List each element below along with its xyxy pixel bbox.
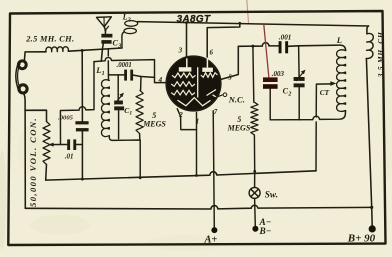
label A+ [204, 235, 218, 246]
wire choke to antenna junction [68, 48, 122, 51]
pin 7 label [214, 108, 218, 116]
label .0005 [58, 115, 74, 122]
wire pot to ground bus [45, 165, 48, 181]
svg-text:MEGS: MEGS [227, 123, 251, 132]
label C3 [113, 39, 122, 50]
terminal B+90 [369, 225, 376, 232]
coil L1 [102, 80, 110, 138]
coil L2 [122, 21, 138, 48]
wire .0005 to ground bus [81, 131, 83, 179]
wire .0001 junction to 5 megs [140, 77, 142, 91]
svg-text:.001: .001 [279, 34, 292, 42]
wire wiper to grid [60, 62, 94, 145]
svg-text:5: 5 [152, 111, 156, 120]
wire .0001 to grid [133, 75, 154, 77]
label N.C. [228, 95, 245, 105]
wire choke junction down to .0005 [81, 51, 83, 122]
svg-text:7: 7 [214, 108, 218, 116]
svg-text:L: L [122, 12, 128, 21]
junction dot pin5 line [251, 45, 254, 48]
terminal A- B- [252, 226, 258, 232]
red crease mark [247, 0, 249, 24]
choke 2.5MH coil [46, 47, 69, 52]
coil L [337, 50, 346, 112]
label .01 [65, 152, 74, 160]
pin 3 label [178, 47, 183, 55]
trimmer capacitor C1 [114, 75, 124, 139]
wire pin 5 to coupling [221, 43, 279, 80]
wire pin 6 plate to top [207, 23, 240, 57]
label C2 [283, 86, 292, 97]
wire phones to choke [24, 52, 46, 61]
svg-text:6: 6 [210, 49, 214, 57]
wire top B+ feed from L2 to RF choke [138, 22, 369, 26]
label CT [320, 88, 330, 97]
choke 3.5MH [366, 26, 373, 226]
label .0001 [117, 62, 132, 69]
svg-text:1: 1 [129, 111, 132, 117]
wire pin 2 [177, 109, 196, 130]
svg-text:2.5 MH. CH.: 2.5 MH. CH. [25, 35, 74, 44]
wire phones to B+ bus [24, 93, 26, 208]
pin 2 label [178, 111, 183, 119]
label Sw. [265, 189, 278, 199]
svg-text:3A8GT: 3A8GT [177, 14, 211, 25]
svg-text:CT: CT [320, 88, 330, 97]
junction dot choke line [81, 49, 84, 52]
wire switch to B- [254, 198, 257, 226]
svg-text:2: 2 [127, 17, 131, 23]
wire pin5 junction to 5 megs right [252, 46, 255, 102]
pin 5 label [228, 73, 232, 81]
wire pin 3 plate to top [185, 21, 188, 57]
label .001 [279, 34, 292, 42]
label 2.5 MH. CH. [25, 35, 74, 44]
label 5 megs left [142, 111, 166, 129]
wire 5 megs to tank bottom [139, 134, 141, 140]
junction dots on buses [81, 22, 256, 181]
svg-text:B+ 90: B+ 90 [347, 232, 376, 244]
svg-text:.0005: .0005 [58, 115, 74, 122]
resistor 5 megs right [251, 102, 258, 135]
label C1 [124, 106, 132, 117]
wire pin 1 center to bus [196, 113, 198, 176]
wire CT tap [316, 81, 336, 171]
svg-text:B−: B− [259, 227, 272, 237]
svg-text:L: L [95, 65, 101, 75]
pin 1 label [196, 118, 200, 126]
pin 8 N.C. [215, 93, 227, 98]
wire caps bottom bus [270, 112, 345, 120]
svg-text:.01: .01 [65, 152, 74, 160]
svg-text:A+: A+ [204, 235, 218, 246]
wire bus to switch [254, 171, 256, 187]
svg-text:3.5 MH. CH.: 3.5 MH. CH. [376, 29, 385, 78]
pin 6 label [210, 49, 214, 57]
label 3.5 MH. CH. [376, 29, 385, 78]
wire to volume control [25, 110, 46, 121]
wire pin 7 to A+ [213, 111, 214, 227]
wire tank bottom [109, 137, 140, 178]
potentiometer wiper arrow [48, 143, 60, 147]
capacitor .003 C2 [263, 77, 278, 88]
label L [336, 35, 342, 45]
wire C3 to grid line [101, 44, 103, 62]
antenna [97, 17, 112, 34]
label L2 [122, 12, 131, 23]
potentiometer 50000 volume control [43, 122, 50, 165]
label pin 4 [158, 76, 163, 84]
headphones [16, 61, 27, 93]
capacitor .001 [279, 41, 289, 53]
wire red to .003 [264, 25, 269, 77]
label B- [259, 227, 272, 237]
label .003 [272, 70, 285, 78]
label 5 megs right [227, 115, 251, 132]
wire B+ bus bottom [25, 205, 371, 209]
wire .001 to L [288, 45, 346, 50]
wire .003 to bus [269, 89, 271, 120]
wire antenna junction to L1 top [108, 49, 124, 81]
capacitor C3 [101, 34, 112, 44]
svg-text:4: 4 [158, 76, 163, 84]
switch SW [249, 187, 260, 198]
wire 5 megs right to bus [253, 135, 255, 171]
wire grid line [94, 57, 167, 82]
svg-text:Sw.: Sw. [265, 189, 278, 199]
capacitor .01 [61, 139, 83, 150]
resistor 5 megs left [136, 90, 143, 134]
svg-text:2: 2 [287, 91, 291, 97]
label 50,000 VOL. CON. [28, 117, 38, 207]
svg-text:MEGS: MEGS [142, 120, 166, 129]
svg-text:N.C.: N.C. [228, 95, 245, 105]
label A- [259, 218, 272, 228]
svg-text:L: L [336, 35, 342, 45]
tube label 3A8GT [177, 14, 211, 25]
label L1 [95, 65, 104, 77]
trimmer capacitor [294, 46, 306, 120]
wire lower bus [46, 171, 316, 180]
capacitor .0005 [75, 121, 88, 131]
svg-text:50,000 VOL. CON.: 50,000 VOL. CON. [28, 117, 38, 207]
junction dot B+ bus [370, 206, 373, 209]
capacitor .0001 [124, 70, 133, 81]
svg-text:.0001: .0001 [117, 62, 132, 69]
svg-text:1: 1 [102, 71, 105, 77]
label B+ 90 [347, 232, 376, 244]
svg-text:3: 3 [178, 47, 183, 55]
tube 3A8GT U1 [166, 56, 221, 111]
terminal A+ [211, 227, 217, 233]
svg-text:.003: .003 [272, 70, 285, 78]
